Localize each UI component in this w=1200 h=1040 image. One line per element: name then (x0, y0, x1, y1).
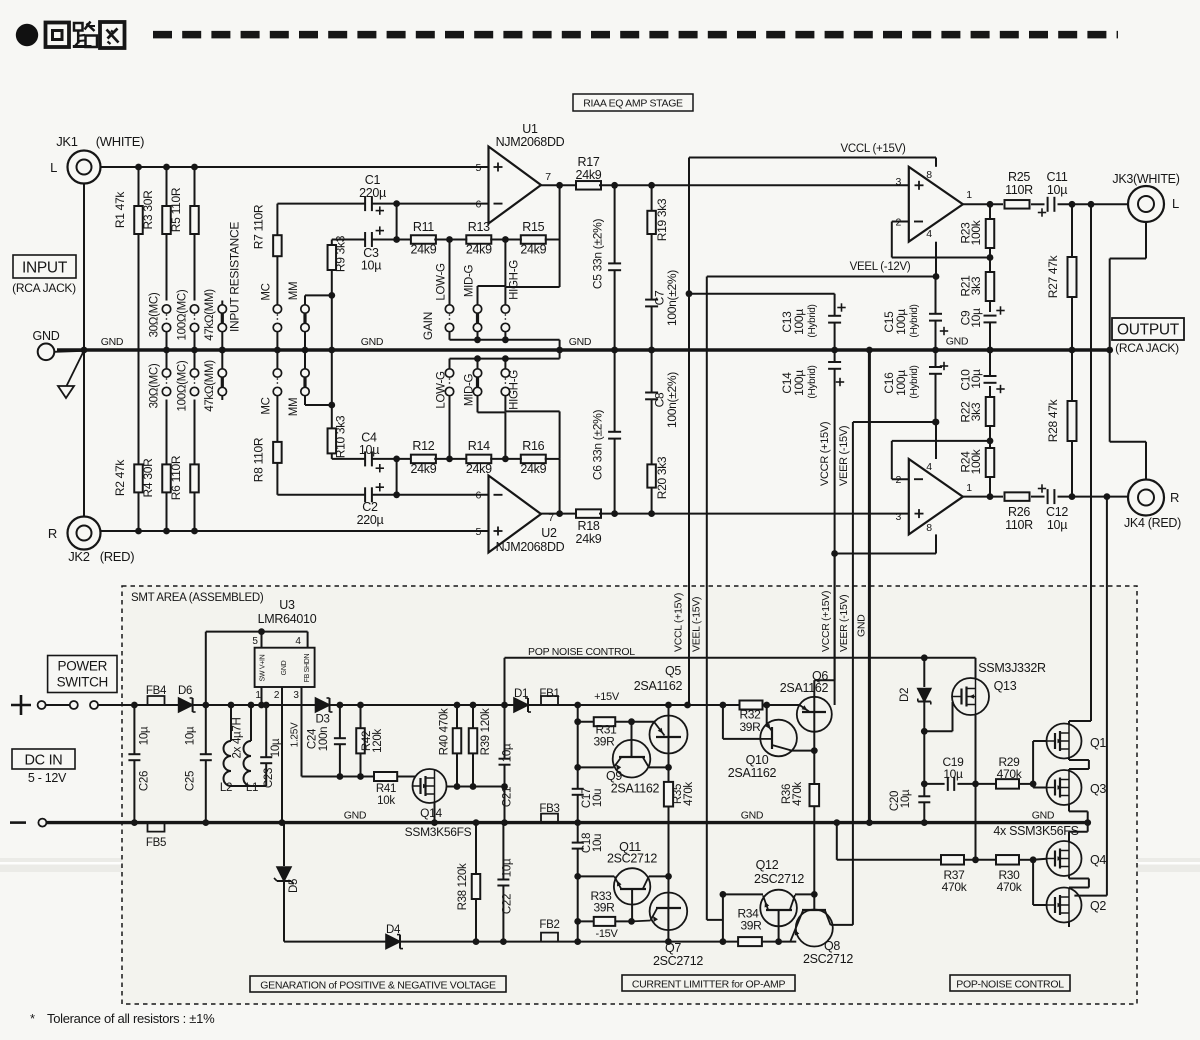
svg-text:C12: C12 (1046, 505, 1068, 519)
svg-text:2SA1162: 2SA1162 (780, 681, 829, 695)
svg-text:8: 8 (926, 169, 932, 181)
svg-text:R38 120k: R38 120k (457, 863, 469, 910)
svg-text:D3: D3 (315, 714, 329, 726)
svg-text:R39 120k: R39 120k (480, 708, 492, 755)
svg-text:R: R (1170, 490, 1179, 505)
svg-text:10µ: 10µ (1047, 518, 1067, 532)
svg-text:220µ: 220µ (357, 513, 384, 527)
svg-text:5: 5 (475, 526, 481, 538)
svg-text:JK1: JK1 (56, 134, 78, 149)
svg-text:47kΩ(MM): 47kΩ(MM) (204, 289, 216, 341)
svg-text:GND: GND (101, 336, 124, 348)
svg-text:30Ω(MC): 30Ω(MC) (149, 292, 161, 337)
svg-text:HIGH-G: HIGH-G (509, 370, 521, 410)
svg-text:*: * (30, 1011, 35, 1026)
svg-text:SW V+IN: SW V+IN (260, 654, 267, 681)
svg-text:R16: R16 (522, 439, 544, 453)
svg-text:R1 47k: R1 47k (113, 191, 127, 229)
svg-text:R: R (48, 526, 57, 541)
svg-text:2x 4µ7H: 2x 4µ7H (232, 718, 244, 759)
svg-text:24k9: 24k9 (466, 243, 492, 257)
svg-text:4x SSM3K56FS: 4x SSM3K56FS (993, 824, 1078, 838)
svg-text:VCCL (+15V): VCCL (+15V) (841, 143, 906, 155)
svg-text:C1: C1 (365, 173, 381, 187)
svg-text:R14: R14 (468, 439, 490, 453)
svg-text:470k: 470k (997, 767, 1023, 781)
svg-text:C11: C11 (1046, 170, 1067, 184)
svg-text:L2: L2 (220, 782, 232, 794)
svg-text:Q4: Q4 (1090, 853, 1106, 867)
svg-text:1: 1 (966, 189, 972, 201)
svg-text:(Hybrid): (Hybrid) (909, 304, 920, 337)
svg-text:R40 470k: R40 470k (439, 708, 451, 755)
svg-text:INPUT: INPUT (22, 260, 68, 277)
svg-text:100µ: 100µ (792, 370, 806, 396)
svg-text:6: 6 (475, 199, 481, 211)
svg-text:R20 3k3: R20 3k3 (655, 456, 669, 499)
svg-text:LOW-G: LOW-G (436, 263, 448, 301)
svg-text:L: L (1172, 196, 1179, 211)
svg-text:VEEL (-12V): VEEL (-12V) (850, 261, 911, 273)
svg-text:4: 4 (926, 461, 932, 473)
svg-text:100µ: 100µ (894, 370, 908, 396)
svg-text:(RED): (RED) (100, 549, 135, 564)
svg-text:100Ω(MC): 100Ω(MC) (177, 289, 189, 340)
svg-text:VEER (-15V): VEER (-15V) (838, 426, 850, 486)
svg-text:VCCR (+15V): VCCR (+15V) (819, 422, 831, 486)
svg-text:10µ: 10µ (969, 308, 983, 328)
svg-text:R6 110R: R6 110R (169, 455, 183, 500)
svg-text:SMT AREA (ASSEMBLED): SMT AREA (ASSEMBLED) (131, 592, 264, 604)
svg-text:100k: 100k (969, 448, 983, 474)
svg-text:100µ: 100µ (792, 309, 806, 335)
svg-text:110R: 110R (1005, 518, 1033, 532)
svg-text:GND: GND (741, 810, 764, 822)
svg-text:110R: 110R (1005, 183, 1033, 197)
svg-text:10µ: 10µ (502, 858, 514, 877)
svg-text:10µ: 10µ (359, 443, 379, 457)
svg-text:U2: U2 (541, 526, 557, 540)
svg-text:GAIN: GAIN (421, 312, 435, 340)
svg-text:C5 33n (±2%): C5 33n (±2%) (591, 219, 605, 290)
svg-text:100Ω(MC): 100Ω(MC) (177, 360, 189, 411)
svg-text:10µ: 10µ (1047, 183, 1067, 197)
svg-text:10µ: 10µ (361, 259, 381, 273)
svg-text:MC: MC (261, 283, 273, 300)
svg-text:3: 3 (895, 176, 901, 188)
svg-text:39R: 39R (740, 919, 762, 933)
svg-text:SSM3K56FS: SSM3K56FS (405, 825, 472, 839)
svg-text:-15V: -15V (595, 928, 618, 940)
svg-text:5 - 12V: 5 - 12V (28, 771, 67, 785)
svg-text:3: 3 (895, 511, 901, 523)
svg-text:(WHITE): (WHITE) (96, 134, 144, 149)
svg-text:NJM2068DD: NJM2068DD (496, 540, 565, 554)
svg-text:VEER (-15V): VEER (-15V) (838, 595, 850, 652)
svg-text:INPUT RESISTANCE: INPUT RESISTANCE (228, 222, 242, 332)
svg-text:3k3: 3k3 (969, 276, 983, 295)
svg-text:Q12: Q12 (756, 858, 779, 872)
svg-text:10µ: 10µ (900, 789, 912, 808)
svg-text:C6 33n (±2%): C6 33n (±2%) (591, 410, 605, 481)
svg-text:24k9: 24k9 (520, 462, 546, 476)
svg-text:FB4: FB4 (146, 685, 167, 697)
svg-text:JK3(WHITE): JK3(WHITE) (1112, 172, 1179, 186)
svg-text:10u: 10u (592, 789, 604, 807)
svg-text:3: 3 (293, 690, 299, 701)
svg-text:R3 30R: R3 30R (141, 190, 155, 230)
svg-text:(RCA JACK): (RCA JACK) (12, 281, 76, 295)
svg-text:C25: C25 (185, 771, 197, 791)
svg-text:FB SHDN: FB SHDN (304, 653, 311, 682)
svg-text:D1: D1 (514, 688, 528, 700)
svg-text:1: 1 (966, 482, 972, 494)
svg-text:R19 3k3: R19 3k3 (655, 198, 669, 241)
svg-text:1: 1 (255, 690, 261, 701)
svg-text:10µ: 10µ (139, 726, 151, 745)
svg-text:2SC2712: 2SC2712 (653, 954, 703, 968)
svg-text:470k: 470k (942, 880, 968, 894)
svg-text:470k: 470k (997, 880, 1023, 894)
svg-text:120k: 120k (372, 729, 384, 753)
svg-text:5: 5 (252, 636, 258, 647)
svg-text:(RCA JACK): (RCA JACK) (1115, 341, 1179, 355)
svg-text:(Hybrid): (Hybrid) (807, 304, 818, 337)
svg-text:VCCR (+15V): VCCR (+15V) (820, 591, 832, 652)
svg-text:R4 30R: R4 30R (141, 458, 155, 498)
svg-text:C2: C2 (362, 500, 378, 514)
svg-text:R26: R26 (1008, 505, 1030, 519)
svg-text:MID-G: MID-G (464, 264, 476, 297)
svg-text:470k: 470k (792, 782, 804, 806)
svg-text:4: 4 (926, 228, 932, 240)
svg-text:R17: R17 (577, 155, 599, 169)
svg-text:Q10: Q10 (746, 753, 769, 767)
svg-text:R28 47k: R28 47k (1046, 398, 1060, 442)
svg-text:GND: GND (569, 336, 592, 348)
svg-text:U3: U3 (279, 598, 295, 612)
svg-text:R9 3k3: R9 3k3 (334, 235, 348, 272)
svg-text:RIAA EQ AMP STAGE: RIAA EQ AMP STAGE (583, 98, 683, 110)
svg-text:MC: MC (261, 397, 273, 414)
svg-text:CURRENT LIMITTER for OP-AMP: CURRENT LIMITTER for OP-AMP (632, 979, 786, 991)
svg-text:NJM2068DD: NJM2068DD (496, 135, 565, 149)
svg-text:Q2: Q2 (1090, 899, 1106, 913)
svg-text:(Hybrid): (Hybrid) (909, 365, 920, 398)
svg-text:1.25V: 1.25V (290, 722, 301, 747)
svg-text:8: 8 (926, 522, 932, 534)
svg-text:Q8: Q8 (824, 939, 840, 953)
svg-text:Q5: Q5 (665, 664, 681, 678)
svg-text:C22: C22 (502, 894, 514, 914)
svg-text:2SC2712: 2SC2712 (607, 852, 657, 866)
svg-text:L1: L1 (246, 782, 258, 794)
svg-text:C21: C21 (502, 787, 514, 807)
svg-text:24k9: 24k9 (576, 532, 602, 546)
svg-text:SWITCH: SWITCH (57, 675, 108, 690)
svg-text:R15: R15 (522, 220, 544, 234)
svg-text:R13: R13 (468, 220, 490, 234)
svg-text:JK4 (RED): JK4 (RED) (1124, 516, 1181, 530)
svg-text:(Hybrid): (Hybrid) (807, 365, 818, 398)
svg-text:GENARATION of POSITIVE & NEGAT: GENARATION of POSITIVE & NEGATIVE VOLTAG… (260, 980, 496, 992)
svg-text:10µ: 10µ (502, 743, 514, 762)
svg-text:D2: D2 (899, 688, 911, 702)
svg-text:39R: 39R (593, 901, 615, 915)
svg-text:D5: D5 (288, 879, 300, 893)
svg-text:2SC2712: 2SC2712 (803, 952, 853, 966)
svg-text:R41: R41 (376, 783, 396, 795)
svg-text:R18: R18 (577, 519, 599, 533)
svg-text:24k9: 24k9 (410, 462, 436, 476)
svg-text:24k9: 24k9 (410, 243, 436, 257)
svg-text:R27 47k: R27 47k (1046, 254, 1060, 298)
svg-text:POP-NOISE CONTROL: POP-NOISE CONTROL (956, 979, 1064, 991)
svg-text:D4: D4 (386, 924, 401, 936)
svg-text:R5 110R: R5 110R (169, 187, 183, 232)
svg-text:2SA1162: 2SA1162 (634, 679, 683, 693)
svg-text:47kΩ(MM): 47kΩ(MM) (204, 360, 216, 412)
svg-text:470k: 470k (683, 782, 695, 806)
svg-text:39R: 39R (593, 735, 615, 749)
svg-text:GND: GND (1032, 810, 1055, 822)
svg-text:R10 3k3: R10 3k3 (334, 415, 348, 458)
svg-text:POWER: POWER (58, 659, 108, 674)
svg-text:10u: 10u (592, 834, 604, 852)
svg-text:C23: C23 (263, 768, 275, 788)
svg-text:GND: GND (361, 336, 384, 348)
svg-text:JK2: JK2 (68, 549, 90, 564)
svg-text:10µ: 10µ (270, 738, 282, 757)
svg-text:LMR64010: LMR64010 (258, 612, 317, 626)
svg-text:OUTPUT: OUTPUT (1117, 322, 1180, 339)
svg-text:POP NOISE CONTROL: POP NOISE CONTROL (528, 646, 635, 658)
svg-text:24k9: 24k9 (520, 243, 546, 257)
svg-text:24k9: 24k9 (576, 168, 602, 182)
svg-text:FB1: FB1 (539, 688, 559, 700)
svg-text:FB3: FB3 (539, 803, 559, 815)
svg-text:10µ: 10µ (969, 369, 983, 389)
svg-text:10µ: 10µ (185, 726, 197, 745)
svg-text:GND: GND (281, 660, 288, 675)
svg-text:4: 4 (295, 636, 301, 647)
svg-text:10k: 10k (377, 795, 395, 807)
svg-text:R8 110R: R8 110R (252, 437, 266, 482)
svg-text:VEEL (-15V): VEEL (-15V) (691, 597, 703, 652)
svg-text:GND: GND (946, 336, 969, 348)
svg-text:GND: GND (33, 329, 60, 343)
svg-text:6: 6 (475, 490, 481, 502)
svg-text:Q3: Q3 (1090, 782, 1106, 796)
svg-text:Q13: Q13 (994, 679, 1017, 693)
svg-text:2SA1162: 2SA1162 (728, 766, 777, 780)
svg-text:+15V: +15V (594, 691, 620, 703)
svg-text:GND: GND (855, 614, 867, 637)
svg-text:39R: 39R (739, 720, 761, 734)
svg-text:U1: U1 (522, 122, 538, 136)
svg-text:Q1: Q1 (1090, 736, 1106, 750)
svg-text:VCCL (+15V): VCCL (+15V) (673, 593, 685, 652)
svg-text:MM: MM (288, 398, 300, 417)
svg-text:R25: R25 (1008, 170, 1030, 184)
svg-text:2SC2712: 2SC2712 (754, 872, 804, 886)
svg-text:100µ: 100µ (894, 309, 908, 335)
svg-text:L: L (50, 160, 57, 175)
svg-text:GND: GND (344, 810, 367, 822)
svg-text:HIGH-G: HIGH-G (509, 260, 521, 300)
svg-text:D6: D6 (178, 685, 192, 697)
svg-text:C24: C24 (307, 728, 319, 749)
svg-text:10µ: 10µ (943, 767, 963, 781)
svg-text:Q7: Q7 (665, 941, 681, 955)
svg-text:100n(±2%): 100n(±2%) (665, 270, 679, 326)
svg-text:30Ω(MC): 30Ω(MC) (149, 363, 161, 408)
svg-text:R7 110R: R7 110R (252, 204, 266, 249)
svg-text:R11: R11 (413, 220, 434, 234)
svg-text:2SA1162: 2SA1162 (611, 782, 660, 796)
svg-text:100n(±2%): 100n(±2%) (665, 372, 679, 428)
svg-text:Tolerance of all resistors : ±: Tolerance of all resistors : ±1% (47, 1011, 215, 1026)
svg-text:5: 5 (475, 162, 481, 174)
svg-text:FB5: FB5 (146, 837, 166, 849)
svg-text:220µ: 220µ (359, 186, 386, 200)
svg-text:7: 7 (545, 171, 551, 183)
svg-text:C26: C26 (139, 771, 151, 791)
svg-text:R2 47k: R2 47k (113, 459, 127, 497)
svg-text:FB2: FB2 (539, 919, 559, 931)
svg-text:SSM3J332R: SSM3J332R (978, 661, 1046, 675)
svg-text:LOW-G: LOW-G (436, 371, 448, 409)
svg-text:3k3: 3k3 (969, 402, 983, 421)
svg-text:MID-G: MID-G (464, 373, 476, 406)
svg-text:2: 2 (274, 690, 280, 701)
svg-text:R12: R12 (412, 439, 434, 453)
svg-text:Q14: Q14 (420, 806, 442, 820)
svg-text:100k: 100k (969, 219, 983, 245)
svg-text:100n: 100n (318, 727, 330, 751)
svg-text:MM: MM (288, 282, 300, 301)
svg-text:DC IN: DC IN (25, 753, 63, 769)
